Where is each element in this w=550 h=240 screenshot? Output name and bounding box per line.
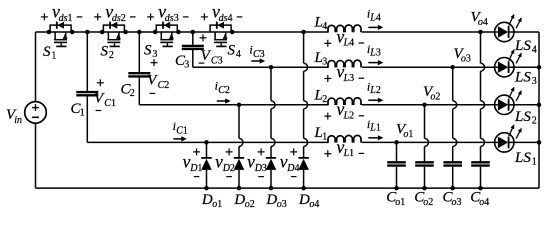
label vD4	[280, 148, 300, 176]
svg-text:o1: o1	[395, 197, 405, 208]
svg-text:2: 2	[322, 94, 327, 105]
svg-text:1: 1	[322, 132, 327, 143]
svg-text:D: D	[233, 192, 245, 208]
svg-text:ds4: ds4	[219, 13, 233, 24]
svg-text:D: D	[201, 192, 213, 208]
junctions on top rail	[47, 30, 235, 35]
diode Do1	[201, 142, 212, 188]
label vds1	[41, 1, 82, 24]
label iL4	[367, 7, 381, 24]
svg-text:L4: L4	[343, 38, 355, 49]
label vds4	[201, 1, 242, 24]
wire L3 to Vo3/LED3	[362, 66, 495, 68]
label vds2	[94, 1, 135, 24]
label Co3	[443, 189, 462, 208]
label LS2	[514, 109, 537, 127]
label iL2	[367, 80, 381, 97]
svg-text:1: 1	[51, 51, 56, 62]
svg-text:D3: D3	[254, 163, 267, 174]
label Vin	[6, 107, 22, 126]
svg-text:2: 2	[532, 116, 537, 127]
wire LED1 cathode to right edge	[514, 141, 539, 143]
svg-text:C1: C1	[104, 98, 116, 109]
node junction Vo1	[394, 140, 399, 145]
svg-text:o3: o3	[452, 197, 462, 208]
capacitor Co3	[443, 67, 462, 188]
svg-text:LS: LS	[514, 38, 531, 54]
svg-text:C3: C3	[253, 49, 265, 60]
svg-text:L4: L4	[369, 12, 381, 23]
node junction Vo3	[450, 65, 455, 70]
svg-text:1: 1	[532, 157, 537, 168]
label C2	[121, 82, 135, 100]
transistor S3 (MOSFET with body diode)	[156, 22, 177, 47]
svg-text:D1: D1	[189, 163, 202, 174]
current arrow iL3	[368, 60, 383, 65]
wire row L2 (iC2 net)	[139, 104, 328, 106]
LED string LS4	[495, 14, 522, 42]
svg-text:o3: o3	[461, 53, 471, 64]
svg-text:2: 2	[130, 88, 135, 99]
transistor S1 (MOSFET with body diode)	[50, 22, 71, 47]
label iL3	[367, 42, 381, 59]
svg-text:o4: o4	[479, 197, 489, 208]
inductor L2	[328, 98, 361, 105]
label Co4	[470, 189, 489, 208]
current arrow iC2	[217, 98, 231, 103]
transistor S4 (MOSFET with body diode)	[210, 22, 231, 47]
node Vo2	[423, 84, 440, 102]
inductor L3	[328, 60, 361, 67]
capacitor Co4	[471, 32, 490, 188]
label vds3	[147, 1, 188, 24]
svg-text:o4: o4	[309, 199, 319, 210]
svg-text:o3: o3	[277, 199, 287, 210]
wire row L1 (iC1 net)	[87, 141, 328, 143]
label iC3	[249, 43, 264, 61]
svg-text:LS: LS	[514, 109, 531, 125]
transistor S2 (MOSFET with body diode)	[103, 22, 124, 47]
label C3	[175, 53, 189, 71]
capacitor C2	[128, 32, 150, 105]
wire LED3 cathode to right edge	[514, 66, 539, 68]
current arrow iL4	[368, 25, 383, 30]
label L3	[314, 50, 328, 68]
svg-text:o2: o2	[430, 92, 440, 103]
label VC1	[94, 79, 116, 110]
wire row L3 (iC3 net)	[193, 66, 329, 68]
wire LED4 cathode to right edge	[514, 31, 539, 33]
capacitor Co2	[415, 105, 434, 188]
LED string LS1	[495, 124, 522, 152]
current arrow iL1	[368, 135, 383, 140]
node junction Do4/top rail	[301, 30, 306, 35]
svg-text:in: in	[14, 115, 22, 126]
node junction Vo4	[478, 30, 483, 35]
svg-text:o4: o4	[478, 17, 488, 28]
svg-text:3: 3	[184, 60, 189, 71]
node junction Do3/row L3	[269, 65, 274, 70]
svg-text:4: 4	[322, 21, 327, 32]
label S1	[43, 44, 56, 62]
svg-text:S: S	[101, 44, 109, 60]
wire top rail (Vin+ to S1..S4 to L4 coil)	[36, 31, 329, 33]
LED string LS3	[495, 49, 522, 77]
svg-text:2: 2	[109, 50, 114, 61]
current arrow iC1	[173, 136, 186, 141]
wire Vin to bottom rail	[35, 123, 37, 188]
label S2	[101, 44, 114, 62]
svg-text:o2: o2	[245, 199, 255, 210]
diode Do3	[266, 67, 277, 188]
svg-text:D: D	[298, 192, 310, 208]
node Vo1	[396, 122, 413, 140]
svg-text:L3: L3	[343, 73, 355, 84]
label Do1	[201, 192, 222, 210]
svg-text:o2: o2	[423, 197, 433, 208]
wire L2 to Vo2/LED2	[362, 104, 495, 106]
node junction LS3 cathode	[537, 65, 542, 70]
diode Do4	[298, 32, 309, 188]
label LS3	[514, 69, 537, 87]
label S3	[144, 43, 157, 61]
svg-text:L2: L2	[343, 111, 355, 122]
voltage source Vin	[25, 102, 47, 124]
svg-text:S: S	[228, 43, 236, 59]
diode Do2	[234, 105, 245, 188]
svg-text:C1: C1	[176, 126, 188, 137]
svg-text:4: 4	[532, 45, 537, 56]
label vD1	[183, 148, 203, 176]
svg-text:3: 3	[322, 56, 327, 67]
label Do4	[298, 192, 319, 210]
node junction LS1 cathode	[537, 140, 542, 145]
label LS1	[514, 150, 537, 168]
capacitor Co1	[387, 142, 406, 188]
label L4	[314, 15, 328, 32]
svg-text:L3: L3	[369, 48, 381, 59]
svg-text:D4: D4	[286, 163, 299, 174]
label iC1	[173, 119, 188, 137]
node junction Do1/row L1	[204, 140, 209, 145]
label iC2	[215, 79, 230, 97]
capacitor C1	[76, 32, 98, 142]
svg-text:C2: C2	[158, 80, 170, 91]
node Vo3	[454, 46, 471, 64]
wire L1 to Vo1/LED1	[362, 141, 495, 143]
svg-text:LS: LS	[514, 69, 531, 85]
inductor L4	[328, 25, 361, 32]
svg-text:4: 4	[236, 49, 241, 60]
LED string LS2	[495, 87, 522, 115]
junctions on bottom rail	[204, 186, 483, 191]
label Do3	[265, 192, 286, 210]
label vL2	[324, 99, 364, 121]
label L1	[314, 125, 328, 143]
svg-text:C3: C3	[211, 55, 223, 66]
node junction Vo2	[422, 103, 427, 108]
inductor L1	[328, 135, 361, 142]
svg-text:D: D	[265, 192, 277, 208]
svg-text:1: 1	[80, 108, 85, 119]
wire LED2 cathode to right edge	[514, 104, 539, 106]
label L2	[314, 87, 328, 105]
label C1	[71, 101, 85, 119]
label vL3	[324, 62, 364, 84]
wire bottom rail (ground return)	[36, 187, 540, 189]
svg-text:o1: o1	[212, 199, 222, 210]
wire Vin to top rail	[35, 32, 37, 102]
label Co1	[386, 189, 405, 208]
svg-text:ds3: ds3	[165, 13, 179, 24]
svg-text:C2: C2	[218, 85, 230, 96]
label vL1	[324, 137, 364, 159]
svg-text:ds1: ds1	[59, 13, 73, 24]
label iL1	[367, 117, 381, 134]
svg-text:ds2: ds2	[112, 13, 126, 24]
label Do2	[233, 192, 254, 210]
label VC2	[147, 59, 169, 93]
wire right edge (LED cathodes to ground)	[538, 32, 540, 188]
svg-text:3: 3	[532, 76, 537, 87]
svg-text:L1: L1	[343, 148, 355, 159]
current arrow iL2	[368, 98, 383, 103]
node junction LS2 cathode	[537, 103, 542, 108]
label Co2	[414, 189, 433, 208]
svg-text:3: 3	[152, 49, 157, 60]
svg-text:S: S	[144, 43, 152, 59]
svg-text:D2: D2	[222, 163, 235, 174]
node Vo4	[471, 10, 488, 28]
capacitor C3	[182, 32, 204, 67]
svg-text:LS: LS	[514, 150, 531, 166]
label LS4	[514, 38, 537, 56]
node junction Do2/row L2	[237, 103, 242, 108]
label VC3	[199, 34, 223, 66]
label S4	[228, 43, 241, 61]
label vD2	[215, 148, 235, 176]
svg-text:o1: o1	[403, 129, 413, 140]
label vD3	[247, 148, 267, 176]
svg-text:L1: L1	[369, 123, 381, 134]
svg-text:L2: L2	[369, 85, 381, 96]
current arrow iC3	[251, 58, 265, 63]
svg-text:S: S	[43, 44, 51, 60]
wire L4 to Vo4/LED4	[362, 31, 495, 33]
label vL4	[324, 26, 364, 48]
